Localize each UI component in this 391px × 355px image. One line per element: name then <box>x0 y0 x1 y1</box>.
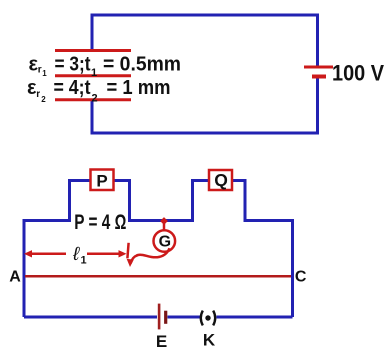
svg-text:1: 1 <box>42 69 47 78</box>
svg-text:ℓ: ℓ <box>72 244 80 265</box>
svg-text:= 4;t: = 4;t <box>54 77 91 99</box>
svg-text:2: 2 <box>41 95 46 104</box>
svg-text:2: 2 <box>92 93 98 105</box>
svg-text:r: r <box>36 89 40 100</box>
svg-text:1: 1 <box>81 255 87 267</box>
svg-text:= 1 mm: = 1 mm <box>107 77 171 99</box>
svg-text:Q: Q <box>214 170 228 190</box>
svg-text:P: P <box>96 172 107 191</box>
svg-text:1: 1 <box>91 67 97 79</box>
svg-text:r: r <box>38 65 42 76</box>
svg-text:100 V: 100 V <box>332 61 384 86</box>
svg-text:C: C <box>295 269 307 286</box>
svg-text:= 0.5mm: = 0.5mm <box>103 53 181 75</box>
svg-text:= 3;t: = 3;t <box>55 53 91 75</box>
svg-text:P = 4 Ω: P = 4 Ω <box>74 211 126 234</box>
svg-text:G: G <box>159 234 171 251</box>
svg-text:E: E <box>156 332 167 351</box>
svg-text:A: A <box>9 269 21 286</box>
svg-text:K: K <box>203 330 216 349</box>
